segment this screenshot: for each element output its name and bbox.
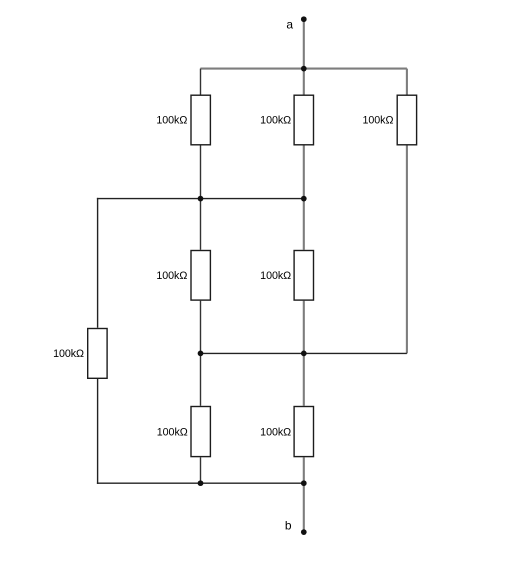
wire: right column top rail to R3 <box>406 69 408 95</box>
junction: row2 rail / center column <box>301 196 307 202</box>
resistor R6 <box>191 407 210 457</box>
wire: center column node row3 to R7 <box>303 353 305 405</box>
svg-text:100kΩ: 100kΩ <box>156 270 187 282</box>
wire: bottom horizontal rail <box>97 482 304 484</box>
resistor R4 <box>191 251 210 301</box>
wire: bottom rail down to terminal b <box>303 483 305 532</box>
svg-text:b: b <box>285 519 292 533</box>
wire: center column R2 to node row2 <box>303 146 305 199</box>
svg-text:100kΩ: 100kΩ <box>53 348 84 360</box>
junction: terminal a dot <box>301 16 307 22</box>
svg-text:100kΩ: 100kΩ <box>260 426 291 438</box>
resistor R1 <box>191 95 210 145</box>
wire: left column R4 to node row3 <box>200 301 202 354</box>
wire: center column R5 to node row3 <box>303 301 305 354</box>
junction: row3 rail / center column <box>301 351 307 357</box>
svg-text:100kΩ: 100kΩ <box>157 426 188 438</box>
resistor R2 <box>294 95 313 145</box>
junction: terminal b dot <box>301 529 307 535</box>
junction: row3 rail / left column <box>198 351 204 357</box>
wire: center column R7 to bottom rail <box>303 457 305 483</box>
wire: row2 horizontal rail <box>97 198 304 200</box>
resistor R5 <box>294 251 313 301</box>
wire: left column node row2 to R4 <box>200 199 202 250</box>
wire: left column R1 to node row2 <box>200 146 202 199</box>
wire: center column node row2 to R5 <box>303 199 305 250</box>
junction: top rail / center column <box>301 66 307 72</box>
svg-text:100kΩ: 100kΩ <box>260 270 291 282</box>
svg-text:100kΩ: 100kΩ <box>156 115 187 127</box>
junction: row2 rail / left column <box>198 196 204 202</box>
wire: left column top rail to R1 <box>200 69 202 95</box>
svg-text:100kΩ: 100kΩ <box>362 115 393 127</box>
wire: left column R6 to bottom rail <box>200 457 202 483</box>
resistor R7 <box>294 407 313 457</box>
svg-text:100kΩ: 100kΩ <box>260 115 291 127</box>
resistor R3 <box>397 95 416 145</box>
junction: bottom rail / center column <box>301 480 307 486</box>
wire: center column top rail to R2 <box>303 69 305 95</box>
junction: bottom rail / left column <box>198 480 204 486</box>
svg-text:a: a <box>286 18 293 32</box>
wire: right column R3 down to row3 rail <box>406 146 408 354</box>
wire: far-left branch row2 rail down to R8 <box>97 198 99 328</box>
wire: top horizontal rail <box>200 68 407 70</box>
wire: far-left branch R8 down to bottom rail <box>97 379 99 484</box>
wire: terminal a down to top rail <box>303 19 305 68</box>
resistor R8 (far left) <box>88 329 107 379</box>
wire: left column node row3 to R6 <box>200 353 202 405</box>
wire: row3 horizontal rail <box>201 352 407 354</box>
